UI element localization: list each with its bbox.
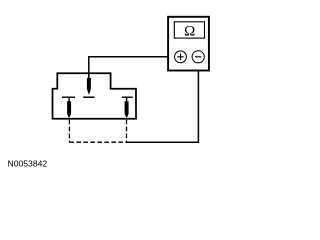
center pin arrow (terminal 2) <box>87 78 91 95</box>
right pin mating contact bar <box>122 96 133 98</box>
left pin arrow (terminal 1) <box>67 98 71 118</box>
connector C1 shell outline <box>53 73 137 119</box>
wire from ohmmeter negative terminal to connector shell bottom <box>126 63 198 143</box>
dashed harness side right <box>126 120 128 143</box>
dashed harness bottom <box>69 141 126 143</box>
center pin mating contact bar <box>83 96 94 98</box>
part number label N0053842 <box>8 159 48 169</box>
left pin mating contact bar <box>62 96 75 98</box>
ohmmeter U1 body <box>168 17 209 71</box>
svg-text:Ω: Ω <box>184 22 195 39</box>
ohmmeter positive terminal <box>175 51 187 63</box>
dashed harness side left <box>68 120 70 143</box>
svg-text:N0053842: N0053842 <box>8 159 48 169</box>
wire from ohmmeter positive terminal to connector center pin <box>89 57 175 80</box>
ohmmeter dial label Ω <box>184 22 195 39</box>
ohmmeter negative terminal <box>192 51 204 63</box>
ohmmeter display window <box>174 22 204 38</box>
right pin arrow (terminal 3) <box>125 98 129 118</box>
